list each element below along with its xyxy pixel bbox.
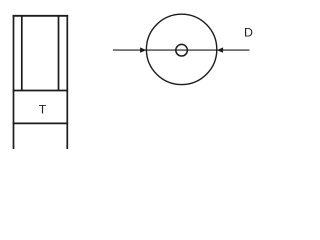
dimension line through circle bbox=[113, 49, 250, 51]
right arrowhead bbox=[217, 47, 223, 52]
tube side view: inner left wall (bore line) bbox=[21, 16, 23, 91]
tube side view: outer left wall bbox=[13, 15, 15, 149]
left arrowhead bbox=[140, 47, 146, 52]
center hole circle bbox=[176, 44, 188, 56]
divider line 1 (top of T section) bbox=[13, 90, 68, 92]
svg-text:D: D bbox=[244, 26, 253, 40]
tube side view: top edge bbox=[13, 15, 69, 17]
tube side view: inner right wall (bore line) bbox=[58, 16, 60, 91]
svg-text:T: T bbox=[39, 102, 47, 116]
circle outline (outer diameter D) bbox=[146, 14, 216, 84]
divider line 2 (bottom of T section) bbox=[13, 122, 68, 124]
tube side view: outer right wall bbox=[66, 15, 68, 149]
